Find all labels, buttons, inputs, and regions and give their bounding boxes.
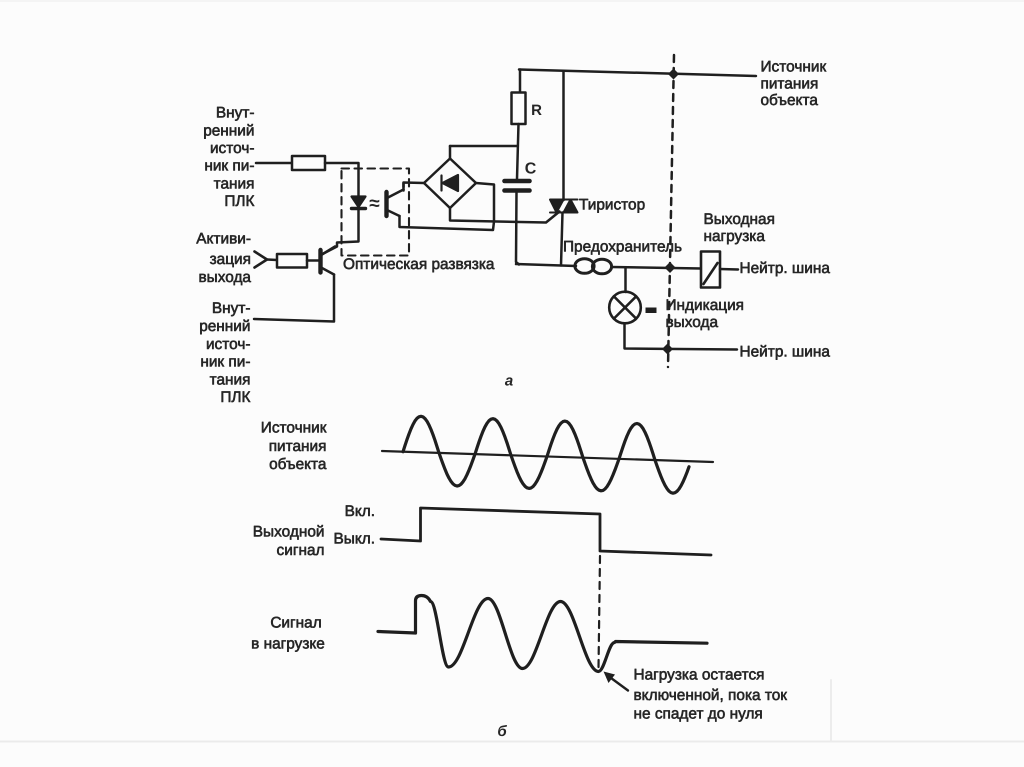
scan artifact: top faint line [0,0,1024,2]
svg-text:источ-: источ- [206,336,251,353]
svg-text:не спадет до нуля: не спадет до нуля [634,706,763,723]
annotation arrow [604,672,629,691]
svg-text:ник пи-: ник пи- [200,354,250,371]
wire: lamp to bottom neutral bus [625,324,738,350]
wire: load to neutral bus [720,268,738,271]
indicator lamp [609,292,641,324]
svg-text:Выходной: Выходной [253,524,325,541]
wire: LED cathode down to Q1 collector [323,209,359,255]
resistor R2 [277,254,307,268]
svg-text:Нейтр. шина: Нейтр. шина [740,260,831,277]
optocoupler LED D1 [352,197,366,209]
scan artifact: faint vertical line [830,680,832,741]
svg-text:тания: тания [210,371,251,388]
svg-text:Вкл.: Вкл. [345,503,375,520]
svg-text:Тиристор: Тиристор [579,197,645,214]
svg-text:Выходная: Выходная [704,211,775,228]
thyristor (triac) symbol [550,200,578,213]
dashed line: turn-off instant [599,556,601,668]
svg-text:тания: тания [214,175,255,192]
resistor R1 [292,156,325,170]
wire: R1 to LED [325,163,359,197]
svg-text:Внут-: Внут- [212,300,251,317]
wire: Q2 collector up to bridge [402,183,405,191]
arrow: output activation input [255,252,268,268]
wire: arrow to resistor R2 [267,258,277,261]
wire: fuse to load [612,267,702,269]
wire: R to capacitor node [517,124,519,179]
svg-text:Нейтр. шина: Нейтр. шина [740,343,831,360]
svg-text:Внут-: Внут- [216,105,255,122]
wire: bridge bottom corner to thyristor gate [450,208,560,223]
wire: R2 to Q1 base [307,259,319,262]
transistor Q1 [321,247,336,275]
output signal step waveform [381,508,711,555]
node dot: dashed line / supply rail junction [668,68,679,79]
wire: bridge right corner down [476,183,494,221]
svg-text:сигнал: сигнал [277,542,325,559]
node dot: bottom neutral / dashed line junction [662,343,673,354]
svg-text:Оптическая развязка: Оптическая развязка [343,256,495,273]
bridge inner diode [442,175,459,191]
svg-text:ПЛК: ПЛК [224,193,254,210]
svg-text:б: б [497,723,507,740]
svg-text:ПЛК: ПЛК [220,389,250,406]
svg-text:зация: зация [210,251,251,268]
svg-text:в нагрузке: в нагрузке [251,636,325,653]
tick before Индикация label [646,308,657,314]
phototransistor Q2 [387,190,404,217]
capacitor C plates [505,181,530,191]
diode bridge diamond [424,159,476,209]
wire: bridge top horizontal [450,145,517,148]
wire: Q2 emitter to gate node [400,216,495,230]
supply sine waveform [403,416,689,493]
svg-text:выхода: выхода [198,269,251,286]
svg-text:R: R [531,102,542,119]
svg-text:Индикация: Индикация [666,297,745,314]
svg-text:C: C [525,161,537,178]
svg-text:нагрузка: нагрузка [704,228,766,245]
wire: Q1 emitter down and to PLC supply [254,275,334,322]
node dot: load line / dashed line junction [664,262,675,273]
wire: phase boundary dashed line [668,55,674,367]
wire: gate return bottom rail [516,264,576,266]
load box (Выходная нагрузка) [701,252,720,288]
scan artifact: bottom light band [0,741,1024,743]
svg-text:ник пи-: ник пи- [204,158,254,175]
svg-text:Нагрузка остается: Нагрузка остается [634,667,765,684]
waveform axis line [382,451,713,462]
svg-text:ренний: ренний [199,318,250,335]
svg-text:Источник: Источник [761,59,827,76]
wire: rail to resistor R [519,70,522,94]
wire: thyristor anode from rail [562,71,565,200]
svg-text:Сигнал: Сигнал [270,615,321,632]
wire: lamp branch down [624,268,627,292]
svg-text:объекта: объекта [269,456,327,473]
svg-text:Активи-: Активи- [196,231,251,248]
svg-text:а: а [505,373,513,390]
svg-text:питания: питания [269,438,327,455]
svg-text:≈: ≈ [369,193,380,214]
svg-text:Источник: Источник [261,420,327,437]
wire: bridge top corner up [449,146,452,159]
optocoupler dashed box [342,169,410,256]
svg-text:Предохранитель: Предохранитель [563,238,682,255]
svg-text:выхода: выхода [666,314,719,331]
wire: bridge left corner to optocoupler collector [404,183,425,188]
wire: to resistor R1 [256,162,292,165]
svg-text:Выкл.: Выкл. [334,531,376,548]
svg-text:питания: питания [761,76,819,93]
wire: thyristor cathode down [561,213,563,266]
wire: capacitor down to gate return [516,193,519,265]
svg-text:ренний: ренний [203,122,254,139]
node: top supply rail [519,70,756,77]
resistor R [512,93,526,125]
load current waveform [378,596,707,672]
svg-text:включенной, пока ток: включенной, пока ток [634,687,788,704]
svg-text:источ-: источ- [210,140,255,157]
svg-text:объекта: объекта [761,92,819,109]
fuse F1 [575,259,612,274]
